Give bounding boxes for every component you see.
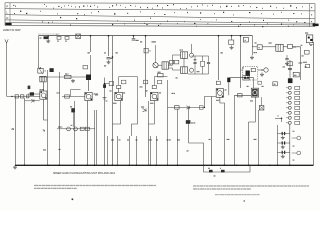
wire emitter Q2 [87,101,89,166]
wire column x94 [94,110,96,165]
box A [257,45,262,50]
wire column x177 [177,109,179,165]
IF output caps C5 C6 C7 [194,56,196,62]
capacitor C3 on rail [133,36,135,39]
right bus x313 [313,42,315,165]
loop label [214,175,216,176]
oscillator coil T1 [162,62,168,69]
loop component 1 [209,170,213,173]
wire column x74 [74,101,76,165]
bottom rail [15,164,314,166]
ground G3 [47,39,49,41]
IF T3 tuning [190,68,194,72]
chassis ground [14,165,16,167]
transistor Q4 stage [115,92,123,100]
AGC jog wire [189,143,204,165]
detector diode assembly dashed [243,67,258,81]
svg-text:SPEED GADO FLOODLIGHTING UNIT: SPEED GADO FLOODLIGHTING UNIT MHz AND 20… [53,172,116,175]
thermistor block [288,78,293,83]
wire rail end drop [252,36,254,55]
capacitor C8 to ground [231,36,233,40]
wire column x258 [258,110,260,165]
trimmer VC1 [38,68,43,73]
resistor R6 [71,108,75,112]
bias box stage2 [109,82,114,86]
wire column x236 [234,95,236,165]
wire column x104 [104,78,106,166]
wire input chain [7,95,40,97]
resistor R20 [199,106,203,109]
resistor R17 label [254,52,256,53]
phone jack J1 [259,106,264,110]
wire y93 segment [235,94,252,96]
cell B8 [288,121,291,124]
bias box link A [121,80,126,84]
cell B4 [288,101,291,104]
wire columns stage4 [118,88,120,92]
footnote right [193,185,196,186]
top rail B+ [39,35,253,37]
wire column x48 [47,70,49,165]
wire to driver [241,59,253,61]
wire coil to transistor [43,82,45,91]
cell B5 [288,106,291,109]
driver transformer T4 [276,44,283,51]
diode D3 [187,106,190,109]
wire column x59 [59,72,61,165]
svg-text:D: D [6,16,8,20]
resistor R2 [21,95,24,98]
resistor R21 label [303,62,307,63]
wire lower input [25,100,40,102]
stage4 part labels [110,90,112,91]
voltage table frame [5,2,315,5]
IF transformer T2 primary [181,52,188,59]
B+ label [116,52,118,53]
wire pair jog stage4 [113,101,121,125]
bias chain y77 [39,76,86,78]
regen pot VR1 [86,75,91,81]
resistor R8 label [140,41,142,42]
ground G2 [72,79,74,81]
wire rail drop x240 [240,36,242,88]
earth loop below rail [204,165,251,172]
IF transformer T3 secondary [181,67,188,74]
wire rail drop x108 with C2 [108,36,110,56]
IF T2 tuning [190,53,194,57]
lower columns mid [107,136,109,165]
audio pair wiring [73,112,75,127]
label 10k stage2 [95,94,97,95]
footnote left [34,185,38,186]
wire rail drop x218 [218,36,220,80]
wire long bus x112 [112,36,114,165]
page marker right [244,200,245,201]
capacitor C1 [27,95,29,98]
cell B1 [288,86,291,89]
stray component left [28,86,31,90]
switch S1 [76,34,81,39]
resistor R19 below rail [65,36,69,39]
jack socket J3 [297,151,301,155]
resistor R11 [186,120,191,124]
resistor R7 label [104,65,106,66]
table entries [13,4,14,7]
cell B7 [288,116,291,119]
resistor R15 [293,72,299,77]
wire pair jog stage5a [132,101,138,136]
resistor R5 22k [65,75,72,78]
resistor R9 1k5 [158,74,164,77]
transistor Q7 stage [251,88,258,97]
stage5 labels [146,90,148,91]
collector link stage5 [154,77,167,86]
wire riser to Q6 [205,97,212,108]
audio pair bus [57,128,95,130]
IF cluster wiring [183,58,185,66]
transistor Q5 stage [150,92,158,100]
switch branch 3 [278,151,290,153]
coupling box on wire [243,76,250,80]
wire y122 segment [190,121,214,123]
wire column x211 [211,97,213,166]
resistor R1 [15,95,18,98]
label 3k [140,86,143,87]
capacitor C9 with ground [286,55,288,58]
connector strip [277,125,279,165]
bias box link C [157,80,161,83]
resistor R10 [175,106,180,109]
mid column labels [111,139,114,140]
detector output circle [264,68,268,72]
driver bias box [273,82,278,86]
switch box S2 [83,66,88,69]
aerial AE1 [5,39,8,43]
transistor Q6 stage [216,89,223,98]
capacitor C2 electrolytic [107,57,111,59]
wire battery chain top [289,60,291,78]
wire rail drop x90 [90,36,92,52]
wire column x248 [248,122,250,165]
chain stub labels [293,131,295,132]
AGC line y107 [168,107,205,109]
tuning coil L1 [40,76,46,82]
label near bus [242,67,244,68]
diode D1 [31,99,34,102]
cell B2 [288,91,291,94]
IF cluster small parts [170,60,174,64]
oscillator transistor Q3 [153,63,158,68]
oscillator padder dark box [50,68,54,72]
wire base Q2 [62,96,85,98]
transistor Q2 OC44 [85,93,92,101]
loop component 2 [221,170,225,173]
coupling diode D2 [143,109,147,112]
resistor R18 below rail [57,36,61,39]
ground bars G4 [103,97,107,99]
tap junction [281,118,283,120]
resistor R13 K box [243,37,248,42]
wire rail drop x145 [145,36,147,97]
switch branch 2 [278,142,290,144]
page marker left [72,199,74,201]
wire emitter Q6 [212,96,217,98]
wire into detector [241,69,243,71]
jack socket J2 [297,136,301,140]
collector link stage4 [119,77,138,101]
wire pot to Q7 [229,78,254,89]
resistor R21 [306,64,310,67]
right side labels [302,55,304,56]
audio pair labels [58,127,61,128]
wire drop x38 [38,36,40,68]
rail junction dots [24,164,26,166]
IF cluster top wire [192,55,209,57]
resistor R4 [30,92,34,95]
wire battery to bus [310,43,314,45]
wire jog stage2 base [71,90,81,97]
transistor Q1 OC45 [40,91,47,99]
wire battery chain bottom [289,125,291,166]
capacitor C4 [144,48,148,53]
wire column E2 [24,98,26,165]
capacitor C10 at rail [44,36,49,39]
wire column x131 [131,101,133,124]
wire column x224 [220,97,225,165]
wire column x190 [189,109,191,120]
wire emitter column E1 [15,98,17,165]
wire osc feed [155,45,157,63]
wire AGC drop x188 [188,108,190,144]
output coupling box [288,44,293,48]
resistor R14 [305,50,310,54]
switch branch 1 [278,133,290,135]
svg-text:LM347 IN 4007: LM347 IN 4007 [3,28,21,32]
wire emitter jog Q7 [249,97,256,122]
resistor R16 [65,95,70,98]
wire column x167 [167,80,169,165]
wire emitter Q1 [44,99,48,120]
wire y46 interconnect [252,46,257,48]
cell B6 [288,111,291,114]
audio output pair Q9 [74,127,78,131]
detector ground [261,73,263,75]
bias box link B [143,80,147,84]
preamp input R12 [238,94,243,97]
wire right top [283,46,287,48]
wire pair jog stage5b [149,101,155,125]
wire column x148 [148,101,150,165]
bias box Q7 top [258,81,261,84]
wire column x96 [96,110,98,165]
capacitor C11 dark [103,84,106,88]
volume control VR2 [227,78,230,83]
cell B3 [288,96,291,99]
svg-text:P: P [6,4,8,8]
audio output pair Q8 [67,127,71,131]
top right battery pack [306,35,312,43]
